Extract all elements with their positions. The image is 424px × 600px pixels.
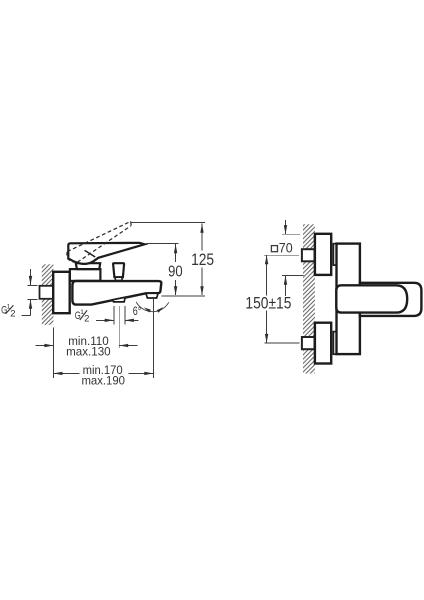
svg-text:90: 90 [168,263,183,280]
svg-text:2: 2 [84,313,89,323]
svg-text:2: 2 [10,308,15,318]
svg-text:max.130: max.130 [66,345,111,359]
svg-text:70: 70 [279,240,293,256]
svg-text:125: 125 [191,251,214,269]
svg-text:6°: 6° [133,304,142,318]
svg-text:150±15: 150±15 [245,295,291,313]
svg-text:max.190: max.190 [81,374,125,388]
